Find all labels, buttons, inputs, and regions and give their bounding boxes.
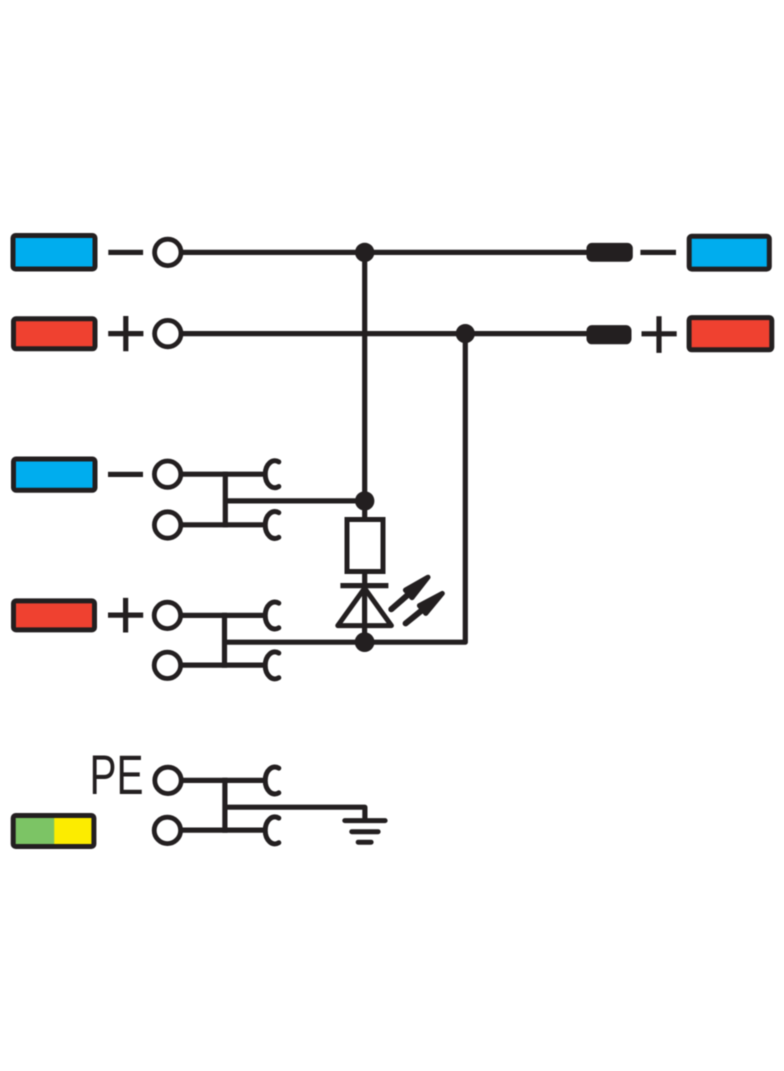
wire PE middle to ground [225, 807, 365, 820]
fuse cartridge row1 [587, 243, 633, 262]
plus label row2 left [108, 316, 143, 351]
terminal circle row1 [155, 239, 181, 265]
wire group3 bottom [181, 522, 265, 527]
wire row2 horizontal [181, 331, 589, 336]
bus bar PE [222, 778, 227, 833]
led triangle [338, 588, 392, 625]
wire group4 bottom [181, 662, 265, 667]
marker red left row2 [14, 319, 96, 349]
wire group3 top [181, 472, 265, 477]
contact group3 bottom [265, 512, 279, 539]
terminal circle group3 top [154, 461, 180, 487]
wire resistor to led [362, 572, 367, 589]
group3: marker blue left [14, 459, 96, 490]
marker blue left row1 [13, 236, 95, 270]
terminal circle group4 top [154, 602, 180, 628]
wire PE bottom [181, 827, 265, 832]
terminal circle PE top [155, 767, 181, 793]
wire group3 middle [225, 498, 364, 503]
terminal circle PE bottom [154, 817, 180, 843]
bus bar group3 [223, 472, 228, 528]
wire row2 vertical drop with elbow to group4 [225, 334, 466, 643]
plus label group4 [108, 598, 143, 633]
group4: marker red left [14, 601, 95, 630]
ground symbol [345, 821, 385, 843]
wire led to bottom node [362, 588, 367, 642]
wire resistor top lead [362, 501, 367, 520]
node junction below led [355, 632, 375, 652]
wire row1 vertical drop [362, 252, 367, 501]
svg-text:PE: PE [90, 743, 144, 806]
wire group4 top [181, 613, 265, 618]
node junction row2 [456, 324, 475, 343]
led cathode bar [340, 583, 388, 588]
wire PE top [181, 778, 265, 783]
minus label row1 left [108, 250, 143, 255]
node junction row1 [355, 243, 374, 262]
terminal circle group3 bottom [154, 512, 180, 538]
contact group4 top [265, 602, 279, 629]
minus label row1 right [640, 250, 676, 255]
terminal circle row2 [155, 320, 181, 346]
led arrow 2 [406, 593, 443, 623]
node junction above resistor [355, 491, 374, 510]
marker red right row2 [689, 318, 772, 350]
marker blue right row1 [689, 236, 769, 269]
led arrow 1 [391, 577, 428, 609]
marker green-yellow [13, 816, 94, 847]
contact group3 top [265, 461, 279, 488]
fuse cartridge row2 [587, 325, 632, 344]
resistor R [347, 520, 383, 572]
bus bar group4 [222, 613, 227, 668]
wire row1 horizontal [181, 250, 589, 255]
terminal circle group4 bottom [154, 652, 180, 678]
contact group4 bottom [265, 652, 279, 679]
minus label group3 [108, 472, 143, 477]
plus label row2 right [642, 316, 677, 353]
contact PE bottom [265, 817, 279, 844]
contact PE top [265, 767, 279, 794]
